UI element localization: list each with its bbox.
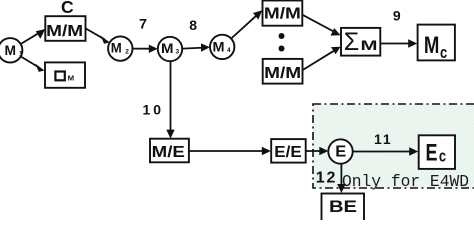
svg-text:M/E: M/E bbox=[152, 144, 186, 161]
box M/M lower right bbox=[263, 59, 303, 84]
svg-text:M: M bbox=[111, 40, 122, 56]
wire upper M/M to Sigma-M bbox=[303, 15, 341, 36]
svg-text:M: M bbox=[424, 32, 440, 59]
svg-text:7: 7 bbox=[139, 16, 147, 32]
box M/M upper right bbox=[263, 1, 303, 26]
wire M2 to M3 with arrowhead bbox=[133, 45, 158, 53]
ellipsis dots bbox=[279, 33, 285, 52]
svg-text:2: 2 bbox=[125, 48, 129, 55]
box Sigma-M (torque summation) bbox=[341, 28, 380, 56]
svg-text:E/E: E/E bbox=[274, 144, 302, 161]
E4WD dash-dot region bbox=[313, 104, 474, 188]
svg-text:c: c bbox=[439, 146, 446, 165]
wire M1 to square-M box bbox=[21, 57, 45, 72]
wire E down to BE box with arrowhead bbox=[337, 164, 345, 194]
wire M/E to E/E with arrowhead bbox=[189, 147, 271, 155]
node E bbox=[328, 139, 352, 163]
box E/E (electric/electric) bbox=[271, 139, 306, 163]
node M3 bbox=[158, 37, 182, 61]
svg-text:11: 11 bbox=[374, 131, 392, 147]
svg-text:8: 8 bbox=[189, 17, 197, 33]
wire M/M to M2 bbox=[86, 29, 110, 44]
svg-text:E: E bbox=[426, 139, 438, 166]
svg-text:BE: BE bbox=[329, 198, 357, 216]
svg-text:Σ: Σ bbox=[344, 28, 359, 56]
svg-text:M: M bbox=[68, 74, 75, 83]
svg-text:9: 9 bbox=[393, 8, 401, 24]
box M/M first (motor/motor) bbox=[45, 16, 85, 41]
svg-text:c: c bbox=[440, 43, 447, 62]
box Ec (electric output) bbox=[419, 135, 455, 169]
svg-text:M/M: M/M bbox=[264, 65, 301, 82]
svg-text:3: 3 bbox=[176, 49, 180, 56]
svg-text:M: M bbox=[5, 42, 17, 58]
wire E/E to E with arrowhead bbox=[306, 147, 328, 155]
wire M4 to upper M/M bbox=[231, 10, 262, 38]
svg-text:M: M bbox=[361, 37, 378, 53]
node M4 bbox=[210, 35, 234, 59]
wire lower M/M to Sigma-M bbox=[303, 47, 341, 70]
svg-text:4: 4 bbox=[227, 47, 231, 54]
svg-text:M: M bbox=[161, 40, 174, 56]
svg-text:C: C bbox=[61, 0, 74, 17]
wire E to Ec with arrowhead bbox=[353, 147, 418, 155]
svg-text:12: 12 bbox=[316, 169, 337, 186]
wire Sigma-M to Mc with arrowhead bbox=[381, 39, 418, 47]
svg-text:1: 1 bbox=[19, 51, 23, 58]
wire M1 to M/M bbox=[21, 29, 46, 44]
svg-text:10: 10 bbox=[143, 101, 165, 117]
box M/E (motor/electric) bbox=[150, 139, 189, 163]
box BE (battery) bottom, cut by image edge bbox=[322, 194, 365, 224]
svg-text:M: M bbox=[213, 38, 225, 54]
wire M3 to M4 with arrowhead bbox=[182, 43, 210, 51]
node M2 bbox=[108, 36, 132, 60]
svg-text:M/M: M/M bbox=[264, 5, 301, 22]
wire M3 down to M/E with arrowhead bbox=[166, 61, 174, 138]
svg-text:Only for E4WD: Only for E4WD bbox=[342, 172, 469, 191]
box square-M (mechanical load) bbox=[45, 62, 85, 87]
box Mc (output) bbox=[418, 25, 455, 62]
svg-text:M/M: M/M bbox=[46, 23, 83, 40]
node M1 bbox=[0, 38, 23, 62]
svg-text:E: E bbox=[335, 143, 346, 160]
